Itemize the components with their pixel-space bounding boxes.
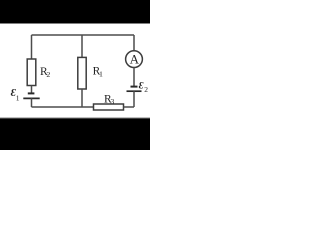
ammeter A1 circle (126, 51, 143, 68)
svg-text:1: 1 (99, 70, 103, 79)
battery E1 long plate (23, 97, 39, 99)
wire bottom left segment (corner to R3) (32, 106, 94, 108)
wire right branch to ammeter (133, 35, 135, 51)
top letterbox bar (0, 0, 150, 23)
wire middle branch lower segment (81, 89, 83, 107)
svg-text:2: 2 (144, 85, 148, 94)
wire top (node between all three branches) (32, 34, 135, 36)
wire R2 to battery E1 (31, 86, 33, 94)
wire battery E2 to bottom-right corner (133, 91, 135, 107)
wire bottom right segment (R3 to corner) (124, 106, 135, 108)
battery E2 long plate (127, 90, 142, 92)
svg-text:1: 1 (16, 93, 20, 102)
wire left branch upper segment (31, 35, 33, 59)
resistor R1 (78, 57, 86, 89)
wire battery E1 to bottom-left corner (31, 98, 33, 107)
wire middle branch upper segment (81, 35, 83, 57)
svg-text:Ɛ: Ɛ (139, 80, 144, 90)
svg-text:3: 3 (110, 97, 114, 106)
resistor R3 (94, 104, 124, 110)
wire ammeter to battery E2 (133, 68, 135, 87)
bottom letterbox bar (0, 117, 150, 119)
battery E2 short plate (131, 86, 138, 88)
svg-text:A: A (130, 51, 140, 66)
battery E1 short plate (28, 92, 35, 94)
svg-text:2: 2 (46, 70, 50, 79)
resistor R2 (27, 59, 36, 86)
